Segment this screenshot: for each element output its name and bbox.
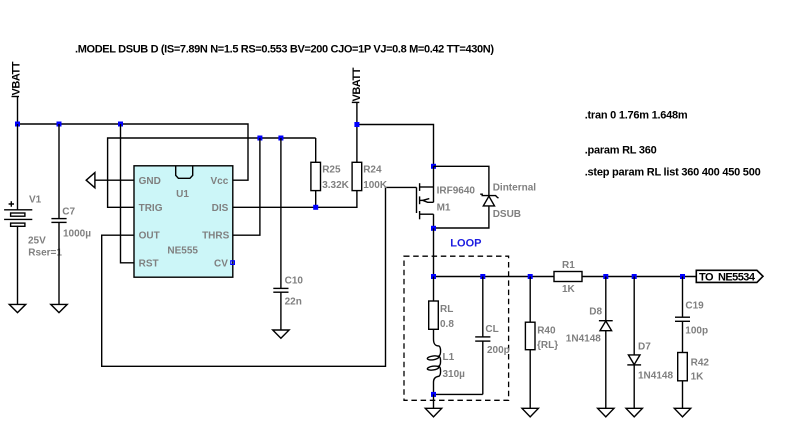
wire GND pin <box>95 179 134 181</box>
svg-text:U1: U1 <box>176 189 189 200</box>
resistor RL <box>429 277 455 331</box>
pin CV unconnected marker <box>231 261 235 265</box>
svg-text:IRF9640: IRF9640 <box>437 185 476 196</box>
ground below R40 <box>522 408 538 417</box>
svg-text:GND: GND <box>139 176 161 187</box>
svg-text:M1: M1 <box>437 202 451 213</box>
node junction loop-D7 <box>632 274 637 279</box>
svg-text:Rser=1: Rser=1 <box>28 248 62 259</box>
svg-text:200p: 200p <box>487 345 510 356</box>
svg-text:1N4148: 1N4148 <box>638 370 673 381</box>
wire THRS up <box>233 138 260 235</box>
svg-text:C10: C10 <box>285 275 304 286</box>
capacitor C19 <box>675 277 708 353</box>
resistor R1 <box>554 260 582 295</box>
svg-text:L1: L1 <box>443 352 455 363</box>
svg-text:0.8: 0.8 <box>440 319 454 330</box>
svg-text:.step param RL list 360 400 45: .step param RL list 360 400 450 500 <box>585 167 761 179</box>
wire RST vertical <box>121 124 135 263</box>
node junction THRS-loop <box>257 136 262 141</box>
svg-text:310µ: 310µ <box>443 369 466 380</box>
ground below C7 <box>51 304 67 312</box>
svg-text:R40: R40 <box>537 325 556 336</box>
capacitor C10 <box>273 138 303 330</box>
svg-text:OUT: OUT <box>139 231 160 242</box>
svg-text:.tran 0 1.76m 1.648m: .tran 0 1.76m 1.648m <box>585 110 688 122</box>
svg-text:100K: 100K <box>363 180 388 191</box>
diode Dinternal DSUB <box>434 166 537 228</box>
battery V1 <box>4 124 62 304</box>
ground below L1 <box>425 408 441 417</box>
diode D8 <box>566 277 613 409</box>
node junction L1-CL <box>431 392 436 397</box>
svg-text:C7: C7 <box>62 207 75 218</box>
node junction DIS-R25 <box>313 205 318 210</box>
node junction loop-D8 <box>603 274 608 279</box>
svg-text:22n: 22n <box>285 296 302 307</box>
svg-text:DSUB: DSUB <box>493 209 521 220</box>
capacitor C7 <box>51 124 91 304</box>
flag VBATT right <box>351 67 363 124</box>
svg-text:C19: C19 <box>685 300 704 311</box>
wire right rail <box>357 125 434 167</box>
svg-text:RST: RST <box>139 258 159 269</box>
svg-text:{RL}: {RL} <box>537 340 558 351</box>
diode D7 <box>627 277 673 409</box>
node junction loop-CL <box>480 274 485 279</box>
ground below R42 <box>674 408 690 417</box>
transistor M1 IRF9640 <box>417 166 476 228</box>
svg-text:RL: RL <box>440 304 453 315</box>
resistor R24 <box>352 125 388 192</box>
svg-text:TRIG: TRIG <box>139 203 163 214</box>
wire OUT feedback <box>102 187 417 366</box>
ground below D7 <box>626 408 642 417</box>
svg-text:D7: D7 <box>638 341 651 352</box>
ground below D8 <box>598 408 614 417</box>
svg-text:VBATT: VBATT <box>351 67 363 101</box>
svg-text:3.32K: 3.32K <box>322 180 349 191</box>
inductor L1 <box>427 329 465 394</box>
wire drain to LOOP <box>433 228 435 276</box>
node junction VBATT-R24 <box>354 122 359 127</box>
svg-text:DIS: DIS <box>212 203 229 214</box>
node junction loop-R40 <box>528 274 533 279</box>
svg-text:100p: 100p <box>685 325 708 336</box>
node junction mosfet source <box>431 164 436 169</box>
port flag TO NE5534 <box>696 270 763 283</box>
svg-text:THRS: THRS <box>202 231 230 242</box>
node junction mosfet drain <box>431 226 436 231</box>
svg-text:CL: CL <box>485 324 498 335</box>
ground below C10 <box>273 330 289 338</box>
svg-text:Dinternal: Dinternal <box>493 182 537 193</box>
svg-text:TO NE5534: TO NE5534 <box>699 272 756 284</box>
node junction C10-loop <box>278 136 283 141</box>
wire L1 to CL bottom <box>434 393 483 395</box>
svg-text:.param RL 360: .param RL 360 <box>585 144 657 156</box>
svg-text:NE555: NE555 <box>167 245 198 256</box>
svg-text:R24: R24 <box>363 165 382 176</box>
svg-text:.MODEL DSUB D (IS=7.89N N=1.5: .MODEL DSUB D (IS=7.89N N=1.5 RS=0.553 B… <box>75 44 494 56</box>
flag input arrow at GND pin <box>86 173 95 188</box>
svg-text:1000µ: 1000µ <box>63 228 91 239</box>
node junction loop-C19 <box>680 274 685 279</box>
ground below V1 <box>9 304 25 312</box>
flag VBATT left <box>11 61 23 124</box>
svg-text:1N4148: 1N4148 <box>566 333 601 344</box>
svg-text:D8: D8 <box>589 306 602 317</box>
dashed loop box <box>404 256 509 400</box>
svg-text:R25: R25 <box>322 165 341 176</box>
svg-text:1K: 1K <box>691 372 705 383</box>
resistor R42 <box>678 353 710 409</box>
node junction loop-RL <box>431 274 436 279</box>
wire top rail left <box>18 124 249 180</box>
svg-text:R42: R42 <box>691 358 710 369</box>
op-amp U1 NE555 box <box>134 166 233 277</box>
svg-text:V1: V1 <box>29 194 42 205</box>
svg-text:Vcc: Vcc <box>211 176 229 187</box>
node junction rail-C7 <box>57 122 62 127</box>
resistor R25 <box>311 138 350 207</box>
resistor R40 <box>525 277 558 409</box>
svg-text:R1: R1 <box>562 260 575 271</box>
wire LOOP rail <box>434 276 555 278</box>
wire TRIG loop vertical <box>108 138 316 207</box>
wire DIS to R24 bottom <box>233 191 357 208</box>
svg-text:CV: CV <box>214 258 228 269</box>
wire to ground <box>433 394 435 408</box>
capacitor CL <box>475 277 510 395</box>
node junction rail-battery <box>15 122 20 127</box>
svg-text:25V: 25V <box>28 235 46 246</box>
node junction rail-RST <box>118 122 123 127</box>
svg-text:VBATT: VBATT <box>11 61 23 95</box>
svg-text:LOOP: LOOP <box>450 237 481 249</box>
svg-text:1K: 1K <box>562 284 576 295</box>
